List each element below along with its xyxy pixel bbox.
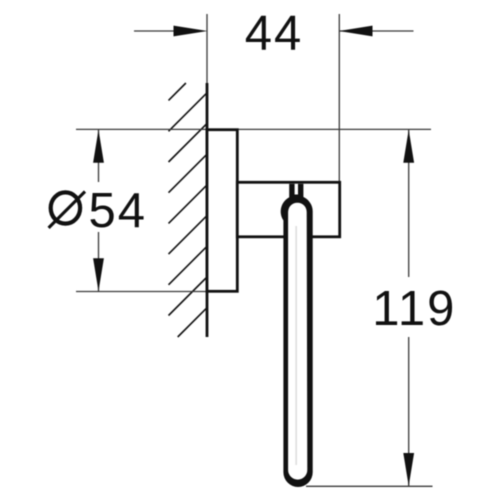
svg-text:54: 54 <box>89 184 148 238</box>
svg-text:44: 44 <box>245 6 304 60</box>
svg-text:119: 119 <box>372 282 456 336</box>
